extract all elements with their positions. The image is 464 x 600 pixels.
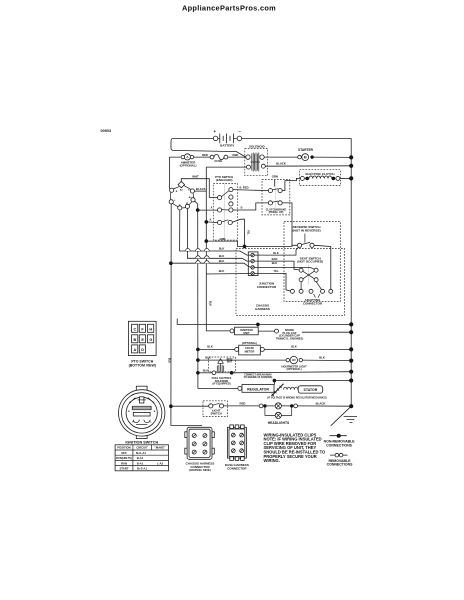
wire solenoid to starter <box>264 156 297 158</box>
svg-text:START: START <box>119 467 128 471</box>
ground <box>331 406 357 426</box>
svg-text:BLK: BLK <box>205 356 211 360</box>
svg-text:(OPTIONAL): (OPTIONAL) <box>180 163 197 167</box>
junction dot regulator B+ <box>273 379 277 383</box>
wire GRN row to reverse switch <box>206 241 292 246</box>
wire PTO row1 to pedal switch, RED <box>233 190 268 191</box>
svg-text:GRN: GRN <box>220 237 226 241</box>
svg-text:CONNECTOR: CONNECTOR <box>257 285 277 289</box>
svg-text:POSITION: POSITION <box>117 446 130 450</box>
junction dot L-line light switch <box>169 404 173 408</box>
svg-text:(IF EQUIPPED): (IF EQUIPPED) <box>212 382 230 386</box>
svg-text:D: D <box>141 348 144 352</box>
svg-text:12V: 12V <box>292 360 297 362</box>
svg-text:B RED: B RED <box>239 185 248 189</box>
svg-text:STATOR: STATOR <box>303 388 317 392</box>
wire pedal switch to reverse switch <box>282 203 297 245</box>
breakaway connector symbol <box>272 384 284 396</box>
svg-text:BLK: BLK <box>319 356 325 360</box>
svg-text:TWIN/CYL. ENGINES): TWIN/CYL. ENGINES) <box>276 336 304 340</box>
wire reverse switch to adapting connector <box>314 245 331 289</box>
junction dot kill row <box>256 323 260 327</box>
junction dot bus/starter <box>349 155 353 159</box>
svg-text:(NOT IN REVERSE): (NOT IN REVERSE) <box>292 228 320 232</box>
svg-text:YEL: YEL <box>273 269 279 273</box>
svg-text:CONNECTOR: CONNECTOR <box>303 301 323 305</box>
svg-text:CONNECTIONS: CONNECTIONS <box>326 443 353 447</box>
svg-text:(BOTTOM VIEW): (BOTTOM VIEW) <box>129 364 156 368</box>
svg-text:00903: 00903 <box>101 129 112 133</box>
svg-text:BLK: BLK <box>219 247 225 251</box>
ignition switch table <box>115 445 168 471</box>
fuel shutoff solenoid (if equipped) <box>209 357 236 386</box>
ignition switch bottom view <box>119 386 165 444</box>
wire hops <box>185 248 209 263</box>
junction dot L-line row <box>169 261 173 265</box>
wire S-line vertical <box>205 167 207 274</box>
wire kill stub to ignition unit <box>257 324 259 327</box>
node GRN junction <box>205 239 209 243</box>
battery B1 <box>213 129 241 147</box>
svg-text:L-A2: L-A2 <box>157 461 164 465</box>
svg-text:BAR: BAR <box>272 257 278 261</box>
svg-text:C: C <box>134 327 137 331</box>
legend removable connection <box>327 453 354 466</box>
wire lamp row, BLK <box>198 359 286 361</box>
svg-text:BLK: BLK <box>219 259 225 263</box>
svg-text:REGULATOR: REGULATOR <box>247 388 269 392</box>
junction dot bus spark <box>349 330 353 334</box>
junction dot bus/clutch <box>349 176 353 180</box>
svg-text:CIRCUIT: CIRCUIT <box>136 446 148 450</box>
ignition unit <box>230 327 258 335</box>
svg-text:BLK: BLK <box>203 368 209 372</box>
starter M1 <box>298 148 314 160</box>
svg-text:BLACK: BLACK <box>196 187 206 191</box>
svg-text:G: G <box>149 338 152 342</box>
electric clutch <box>300 170 341 186</box>
svg-text:BLK: BLK <box>291 344 297 348</box>
adapting connector <box>290 289 332 305</box>
indicator lamp 12V <box>281 356 307 371</box>
svg-text:G: G <box>179 204 181 206</box>
svg-text:BLACK: BLACK <box>316 402 326 406</box>
wire ignition L down <box>171 204 202 426</box>
wire fuse to solenoid, RED <box>228 156 246 158</box>
wire ammeter to fuse, RED <box>194 156 211 158</box>
svg-text:(MATING SIDE): (MATING SIDE) <box>189 468 210 472</box>
svg-text:RED: RED <box>233 153 239 157</box>
svg-text:BLK: BLK <box>167 358 170 363</box>
light switch <box>171 401 228 417</box>
ammeter A (optional) <box>180 154 197 168</box>
junction dot fuel out <box>230 371 234 375</box>
svg-text:WIRING.: WIRING. <box>264 458 280 463</box>
wire A1 to PTO row2 <box>195 201 218 210</box>
svg-text:A: A <box>134 348 137 352</box>
svg-text:OFF: OFF <box>121 451 127 455</box>
svg-text:–: – <box>238 129 241 134</box>
wire battery- to right bus <box>242 137 352 139</box>
svg-text:K: K <box>210 219 212 222</box>
wire solenoid to bus, BLACK <box>265 165 351 167</box>
fuse F1 <box>210 154 228 163</box>
svg-text:(NOT OCCUPIED): (NOT OCCUPIED) <box>297 260 323 264</box>
reverse switch (not in reverse) <box>292 225 321 247</box>
junction dot A1-line lamp <box>196 358 200 362</box>
svg-text:UNIT: UNIT <box>243 331 250 335</box>
wire ignition unit to spark plug <box>258 330 274 332</box>
svg-text:BLK: BLK <box>207 344 213 348</box>
legend non-removable connection <box>324 434 356 448</box>
wire regulator row <box>198 387 238 389</box>
svg-text:HARNESS: HARNESS <box>255 307 270 311</box>
junction dot bus kill row <box>349 322 353 326</box>
svg-text:M: M <box>304 155 307 159</box>
junction dot A1-line fuel <box>196 371 200 375</box>
wire S-line to ignition unit <box>206 274 230 331</box>
note wiring insulated clips <box>264 432 327 463</box>
wire regulator B+ to bus <box>274 381 351 385</box>
spark plug cap <box>275 328 304 340</box>
svg-text:YEL: YEL <box>247 230 250 235</box>
right bus wire <box>350 138 352 406</box>
svg-text:(OPTIONAL): (OPTIONAL) <box>242 341 257 345</box>
wire headlights to bus, BLACK <box>298 405 352 407</box>
pto switch (engaged) <box>213 175 237 240</box>
svg-text:RUN: RUN <box>121 461 127 465</box>
svg-text:(ENGAGED): (ENGAGED) <box>216 178 233 182</box>
junction dot ground node <box>349 404 353 408</box>
wire clutch feed from pedal switch <box>282 178 300 190</box>
svg-text:B+S-A1: B+S-A1 <box>137 467 147 471</box>
wire PTO row3 to GRN node, YEL <box>232 219 244 246</box>
svg-text:M: M <box>129 402 131 404</box>
svg-text:(PEDAL UP): (PEDAL UP) <box>269 210 284 214</box>
wire junction T4 to adapting connector, YEL <box>254 273 290 291</box>
svg-text:CONNECTIONS: CONNECTIONS <box>327 462 354 466</box>
wire fuel to bus <box>232 372 352 373</box>
junction dot bus lamp <box>349 359 353 363</box>
svg-text:BLK: BLK <box>219 254 225 258</box>
svg-text:CONNECTOR: CONNECTOR <box>227 466 247 470</box>
svg-text:GRN: GRN <box>272 174 278 178</box>
wire row3 from S-line <box>206 221 217 224</box>
ignition key switch (schematic) <box>169 181 195 210</box>
svg-text:BLK: BLK <box>272 261 278 265</box>
wire junction T3 to seat switch <box>254 267 314 269</box>
wire fuel row, BLK <box>198 372 212 374</box>
svg-text:+: + <box>214 129 217 134</box>
wire spark row to bus <box>302 331 351 333</box>
wire ignition B feed <box>169 157 180 189</box>
svg-text:M: M <box>186 203 188 205</box>
junction dot A1 line row2 <box>196 208 200 212</box>
wire hour meter to bus, BLK <box>264 348 351 350</box>
svg-text:BLK: BLK <box>208 301 211 306</box>
wire junction T1 to reverse switch, BLK <box>254 247 298 255</box>
wire clutch to bus <box>340 177 351 179</box>
svg-text:METER: METER <box>245 349 255 353</box>
wire BLACK from S to solenoid line <box>195 190 207 192</box>
pto switch bottom view <box>128 321 156 367</box>
junction dot GRN node <box>243 245 247 249</box>
wire solenoid coil to S line <box>206 166 246 168</box>
clutch/brake pedal switch (pedal up) <box>262 174 290 215</box>
dash harness connector <box>225 425 249 471</box>
svg-text:SWITCH: SWITCH <box>210 412 221 416</box>
svg-text:B: B <box>241 207 243 210</box>
wire A1 line down <box>197 210 199 388</box>
svg-text:HEADLIGHTS: HEADLIGHTS <box>268 421 290 425</box>
svg-text:A: A <box>211 206 213 209</box>
wire ignition G down <box>180 210 251 255</box>
svg-text:G: G <box>153 402 155 404</box>
chassis harness outer box <box>236 249 345 316</box>
svg-text:M-G-A1: M-G-A1 <box>136 451 146 455</box>
svg-text:RED: RED <box>202 153 208 157</box>
svg-text:WHT: WHT <box>227 360 233 363</box>
svg-text:ELECTRIC CLUTCH: ELECTRIC CLUTCH <box>305 172 335 176</box>
chassis harness connector (mating side) <box>185 427 215 472</box>
svg-text:(IF VOLTAGE IS WRONG REGULATOR: (IF VOLTAGE IS WRONG REGULATOR MECHANICS… <box>267 396 327 399</box>
stator <box>267 386 327 400</box>
junction dot S-line row3 <box>205 220 209 224</box>
wire starter to bus <box>312 156 351 158</box>
wire light switch to headlights, RED <box>224 405 260 407</box>
wire L-line branch row <box>171 263 251 267</box>
svg-text:STARTER: STARTER <box>298 148 314 152</box>
headlights <box>259 403 297 425</box>
wire hour meter row, BLK <box>198 348 235 350</box>
svg-text:(OPTIONAL): (OPTIONAL) <box>287 367 302 371</box>
seat switch (not occupied) <box>297 256 323 284</box>
hour meter (optional) <box>235 341 265 355</box>
junction dot bus fuel <box>349 370 353 374</box>
svg-text:BLK: BLK <box>219 269 225 273</box>
svg-text:B-A1: B-A1 <box>137 461 144 465</box>
svg-text:RUN(HDLTS): RUN(HDLTS) <box>116 456 132 460</box>
svg-text:BATTERY: BATTERY <box>220 143 235 147</box>
svg-text:H: H <box>149 327 152 331</box>
junction dot bus regulator <box>349 378 353 382</box>
wire junction T2 to seat switch <box>254 261 299 270</box>
regulator <box>238 374 274 393</box>
svg-text:WHT: WHT <box>192 175 199 179</box>
svg-text:BLACK: BLACK <box>276 161 286 165</box>
wires seat switch to adapting connector <box>301 282 321 290</box>
wire battery+ to solenoid <box>171 138 246 157</box>
svg-text:B-A1: B-A1 <box>137 456 144 460</box>
junction connector <box>248 252 277 289</box>
svg-text:AppliancePartsPros.com: AppliancePartsPros.com <box>182 3 276 12</box>
svg-text:SOLENOID: SOLENOID <box>249 145 266 149</box>
svg-text:BLK: BLK <box>273 251 279 255</box>
svg-text:"MAKE": "MAKE" <box>155 446 167 450</box>
svg-text:TO ENGINE (IF SCREWS): TO ENGINE (IF SCREWS) <box>244 376 273 379</box>
wire S-line to junction T4 <box>206 273 251 276</box>
wire kill row to bus <box>177 319 351 325</box>
wire ignition M down <box>187 209 251 262</box>
wire PTO row2 to pedal switch <box>233 203 268 210</box>
chassis harness inner box <box>284 222 340 302</box>
svg-text:RED: RED <box>240 402 246 406</box>
solenoid <box>245 145 268 176</box>
wire WHT from A2 to PTO switch <box>181 179 213 198</box>
wire lamp to bus, BLK <box>303 359 352 362</box>
svg-text:B: B <box>134 338 137 342</box>
junction dot bus hour meter <box>349 347 353 351</box>
junction dot bus/solenoid <box>349 164 353 168</box>
svg-text:IGNITION SWITCH: IGNITION SWITCH <box>125 441 158 445</box>
svg-text:FUSE: FUSE <box>215 159 223 163</box>
junction dot A1-line hour meter <box>196 348 200 352</box>
